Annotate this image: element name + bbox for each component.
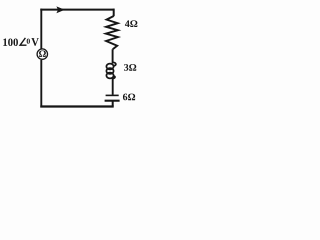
wire top horizontal bbox=[40, 9, 114, 11]
wire inductor to capacitor bbox=[112, 78, 114, 94]
capacitor C 6ohm bottom plate bbox=[105, 100, 120, 102]
resistor R 4ohm zigzag bbox=[106, 16, 118, 49]
wire left vertical lower bbox=[40, 60, 42, 108]
current direction arrowhead bbox=[56, 6, 64, 13]
label 4 ohm bbox=[125, 20, 137, 27]
angle symbol of phasor bbox=[20, 38, 26, 45]
superscript 0 bbox=[27, 39, 30, 44]
wire right top stub bbox=[113, 9, 115, 17]
wire bottom horizontal bbox=[40, 105, 113, 107]
label V bbox=[31, 38, 39, 46]
wire capacitor to bottom bbox=[112, 101, 114, 106]
wire left vertical upper bbox=[40, 9, 42, 49]
label 3 ohm bbox=[124, 64, 136, 71]
label 100 bbox=[3, 38, 18, 46]
source U1 circle bbox=[37, 49, 47, 59]
label 6 ohm bbox=[123, 94, 135, 101]
inductor L 3ohm coil loops bbox=[106, 62, 115, 78]
capacitor C 6ohm top plate bbox=[106, 94, 119, 96]
wire resistor to inductor bbox=[112, 49, 114, 63]
source omega symbol bbox=[39, 51, 46, 57]
